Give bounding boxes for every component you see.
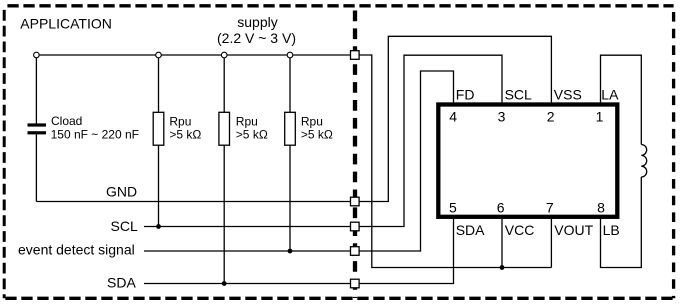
svg-text:event detect signal: event detect signal: [18, 242, 135, 258]
svg-text:6: 6: [497, 199, 505, 215]
node supply circle 2: [156, 52, 162, 58]
junction VCC / supply: [500, 265, 505, 270]
svg-text:VSS: VSS: [554, 87, 582, 103]
wire SCL to pin 3: [359, 55, 502, 226]
svg-text:GND: GND: [106, 184, 137, 200]
svg-text:LB: LB: [603, 222, 620, 238]
node supply circle 3: [221, 52, 227, 58]
svg-text:VCC: VCC: [505, 222, 535, 238]
svg-text:APPLICATION: APPLICATION: [20, 16, 112, 32]
svg-text:VOUT: VOUT: [554, 222, 593, 238]
svg-text:2: 2: [547, 109, 555, 125]
svg-text:Rpu: Rpu: [169, 114, 191, 128]
wire SDA: [144, 283, 355, 285]
wire supply to VCC and VOUT: [359, 55, 551, 268]
wire resistor R3 bottom: [289, 145, 291, 251]
wire VOUT pin 7: [550, 219, 552, 268]
svg-text:FD: FD: [456, 87, 475, 103]
resistor Rpu 3: [285, 112, 296, 145]
wire resistor R2 top: [223, 55, 225, 112]
node GND square: [351, 197, 360, 206]
svg-text:SDA: SDA: [107, 275, 136, 291]
chip boundary dashed divider: [353, 4, 357, 298]
svg-text:(2.2 V ~ 3 V): (2.2 V ~ 3 V): [217, 30, 296, 46]
svg-text:SDA: SDA: [456, 222, 485, 238]
capacitor Cload: [28, 123, 47, 126]
wire GND: [36, 201, 355, 203]
node supply circle 4: [287, 52, 293, 58]
svg-text:7: 7: [546, 199, 554, 215]
wire event detect to FD: [359, 71, 454, 251]
node SCL square: [351, 222, 360, 231]
node supply square: [351, 51, 360, 60]
svg-text:3: 3: [498, 109, 506, 125]
node supply circle 1: [34, 52, 40, 58]
wire resistor R1 top: [158, 55, 160, 112]
svg-text:8: 8: [597, 199, 605, 215]
wire capacitor bottom: [35, 134, 37, 201]
wire resistor R2 bottom: [223, 145, 225, 283]
op-amp chip U1 body: [438, 105, 617, 217]
wire capacitor top: [35, 55, 37, 124]
svg-text:4: 4: [449, 109, 457, 125]
resistor Rpu 1: [153, 112, 164, 145]
junction event / R3: [288, 249, 293, 254]
wire supply rail: [36, 54, 355, 56]
svg-text:SCL: SCL: [111, 218, 138, 234]
svg-text:LA: LA: [601, 87, 619, 103]
wire resistor R3 top: [289, 55, 291, 112]
node event square: [351, 247, 360, 256]
svg-text:supply: supply: [237, 14, 277, 30]
wire GND to VSS: [359, 36, 551, 201]
svg-text:>5 kΩ: >5 kΩ: [236, 128, 268, 142]
svg-text:>5 kΩ: >5 kΩ: [169, 128, 201, 142]
inductor L1: [641, 145, 646, 178]
resistor Rpu 2: [219, 112, 230, 145]
wire LA to inductor: [601, 55, 642, 144]
wire VCC pin 6: [501, 219, 503, 268]
svg-text:Rpu: Rpu: [236, 114, 258, 128]
junction SDA / R2: [222, 281, 227, 286]
svg-text:Cload: Cload: [51, 114, 82, 128]
svg-text:SCL: SCL: [505, 87, 532, 103]
wire LB to inductor: [601, 177, 642, 268]
node SDA square: [351, 279, 360, 288]
svg-text:Rpu: Rpu: [301, 114, 323, 128]
wire SCL: [144, 226, 355, 228]
wire resistor R1 bottom: [158, 145, 160, 226]
wire SDA to pin 5: [359, 219, 454, 284]
svg-text:>5 kΩ: >5 kΩ: [301, 128, 333, 142]
svg-text:1: 1: [596, 109, 604, 125]
svg-text:150 nF ~ 220 nF: 150 nF ~ 220 nF: [51, 128, 139, 142]
svg-text:5: 5: [449, 199, 457, 215]
junction SCL / R1: [156, 224, 161, 229]
wire event detect signal: [144, 250, 355, 252]
